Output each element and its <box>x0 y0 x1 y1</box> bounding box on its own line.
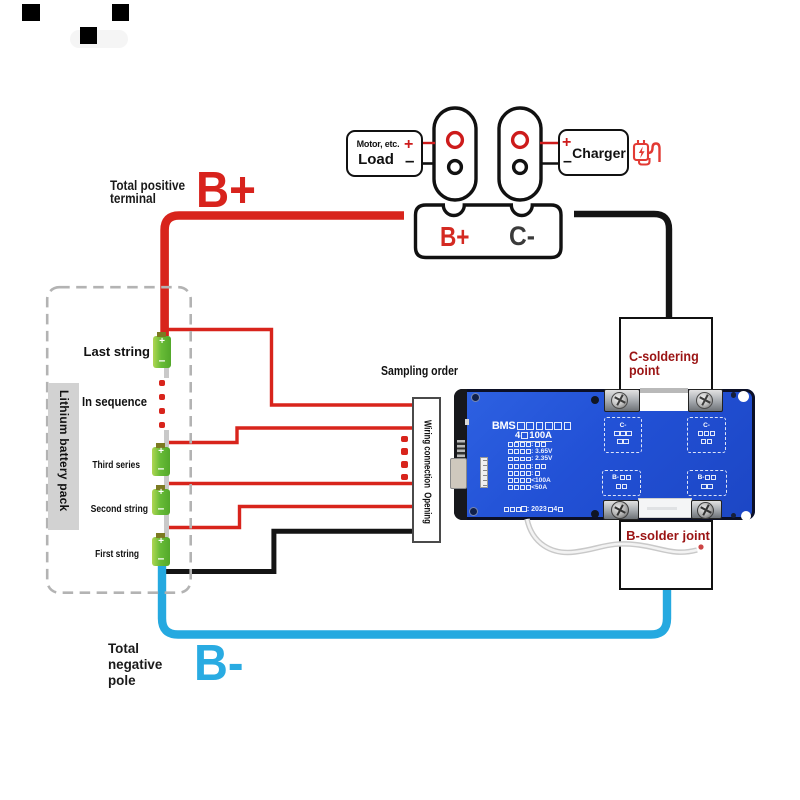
label: Third series <box>60 459 140 471</box>
svg-text:C-: C- <box>509 221 535 251</box>
board dashed label C- left <box>604 417 642 453</box>
screw C- right <box>696 392 713 409</box>
B+ C- terminal block <box>416 205 562 258</box>
wire: red sense wire 1 (last string) <box>165 330 413 406</box>
label: Total negative pole <box>108 641 162 689</box>
ribbon end plug <box>698 544 703 549</box>
label: In sequence <box>51 395 147 409</box>
charger plug icon <box>634 140 660 165</box>
wire: red sense wire 4 <box>166 507 413 528</box>
white box between bottom bus bars <box>638 498 692 518</box>
battery pack dashed outline <box>44 284 194 596</box>
grey series link strip <box>164 366 169 378</box>
wire: black sense wire (B-) <box>166 531 413 571</box>
red dots before wiring box <box>401 436 408 443</box>
label: B- big <box>194 633 244 692</box>
battery cell: second string <box>152 489 170 515</box>
board JST connector <box>450 458 467 489</box>
C- soldering point box <box>619 317 713 389</box>
bus bar C- left <box>604 389 640 412</box>
connector pill left <box>434 108 476 200</box>
board info lines <box>508 441 552 491</box>
screw B- right <box>697 502 714 519</box>
label: Last string <box>40 344 150 359</box>
watermark remnant square 2 <box>80 27 97 44</box>
label: Total positive terminal <box>110 179 185 206</box>
wire: thick black C- wire <box>574 214 669 318</box>
wiring connection opening box <box>412 397 442 543</box>
watermark remnant square 3 <box>112 4 129 21</box>
link wires pill to charger box <box>540 142 558 144</box>
board edge holes <box>591 396 599 404</box>
board left black connector strip <box>454 389 467 520</box>
white gap between top bus bars <box>640 388 688 411</box>
bus bar B- left <box>603 500 639 520</box>
svg-text:B+: B+ <box>440 221 470 252</box>
wire: red sense wire 3 <box>166 482 413 485</box>
bus bar C- right <box>688 389 723 412</box>
board corner holes <box>471 393 480 402</box>
connector pill right <box>499 108 541 200</box>
link wires load box to pill <box>419 142 435 144</box>
wire: thick cyan B- wire <box>162 564 667 635</box>
bus bar B- right <box>691 500 722 519</box>
battery cell: first string <box>152 537 170 566</box>
board dashed label B- left <box>602 470 641 496</box>
label: B+ big <box>196 160 256 219</box>
lithium battery pack label <box>48 383 79 530</box>
board white pin label <box>480 457 488 488</box>
board date line <box>504 506 563 513</box>
BMS board <box>454 389 755 520</box>
ribbon cable from board <box>440 500 720 580</box>
red dots in sequence <box>159 380 165 386</box>
label: First string <box>60 548 139 560</box>
faint watermark smudge <box>70 30 128 48</box>
battery cell: last string <box>153 336 171 368</box>
board title BMS <box>491 420 573 432</box>
load box <box>346 130 423 177</box>
board 4S100A <box>515 430 552 443</box>
screw C- left <box>611 392 628 409</box>
battery cell: third series <box>152 447 170 476</box>
wire: thick red B+ main wire <box>165 216 404 337</box>
screw B- left <box>611 501 629 519</box>
label: Second string <box>59 503 148 515</box>
watermark remnant square 1 <box>22 4 40 21</box>
label: Sampling order <box>381 364 458 378</box>
charger box <box>558 129 629 176</box>
wire: red sense wire 2 <box>166 428 413 443</box>
board dashed label B- right <box>687 470 727 496</box>
board dashed label C- right <box>687 417 726 453</box>
B- solder joint box <box>619 520 713 590</box>
